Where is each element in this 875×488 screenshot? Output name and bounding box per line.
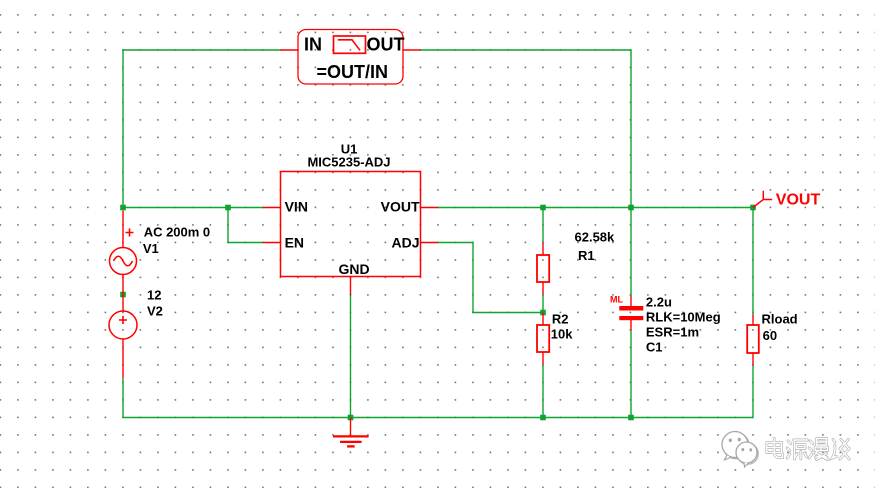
svg-text:=OUT/IN: =OUT/IN — [317, 62, 389, 82]
svg-text:R2: R2 — [552, 312, 569, 327]
svg-text:12: 12 — [147, 288, 161, 303]
svg-text:RLK=10Meg: RLK=10Meg — [646, 309, 721, 324]
svg-text:R1: R1 — [578, 248, 595, 263]
svg-text:VIN: VIN — [285, 199, 308, 215]
svg-text:EN: EN — [285, 235, 304, 251]
svg-text:ML: ML — [610, 294, 623, 304]
svg-text:10k: 10k — [551, 327, 573, 342]
svg-text:ADJ: ADJ — [391, 235, 419, 251]
svg-text:VOUT: VOUT — [776, 192, 821, 209]
svg-text:MIC5235-ADJ: MIC5235-ADJ — [307, 155, 390, 170]
svg-text:OUT: OUT — [367, 34, 405, 54]
svg-text:VOUT: VOUT — [381, 199, 420, 215]
svg-text:IN: IN — [304, 34, 322, 54]
svg-text:62.58k: 62.58k — [575, 229, 616, 244]
svg-text:2.2u: 2.2u — [646, 294, 672, 309]
svg-text:ESR=1m: ESR=1m — [646, 324, 699, 339]
svg-text:V2: V2 — [147, 303, 163, 318]
svg-text:V1: V1 — [143, 241, 159, 256]
svg-text:AC 200m 0: AC 200m 0 — [144, 224, 210, 239]
svg-text:60: 60 — [763, 328, 777, 343]
svg-text:GND: GND — [338, 261, 369, 277]
svg-text:C1: C1 — [646, 339, 663, 354]
svg-text:Rload: Rload — [762, 312, 798, 327]
